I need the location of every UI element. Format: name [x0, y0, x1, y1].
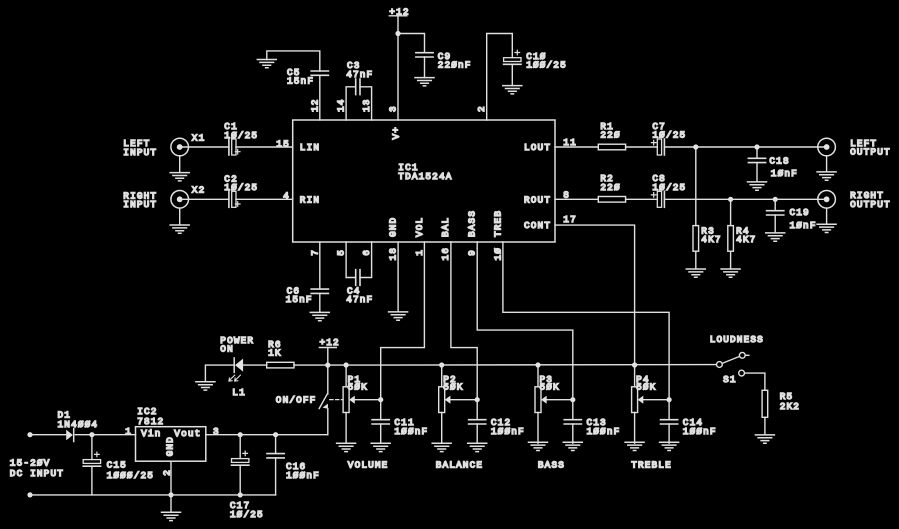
wire C16 to ground rail	[275, 458, 277, 495]
svg-text:ON/OFF: ON/OFF	[276, 395, 317, 406]
svg-text:VOL: VOL	[414, 217, 425, 237]
capacitor C5	[311, 71, 328, 75]
wire IC1 pin 18 to ground	[397, 242, 399, 312]
connector X2	[171, 191, 189, 209]
connector RIGHT OUTPUT	[818, 191, 836, 209]
wire +12 node to C9	[398, 34, 425, 53]
node junction P3 top	[535, 362, 540, 367]
node junction C7/R3	[693, 144, 698, 149]
ground R3	[686, 269, 705, 277]
svg-text:DC INPUT: DC INPUT	[10, 468, 64, 479]
wire C13 to ground	[572, 424, 574, 443]
svg-text:13: 13	[361, 98, 372, 112]
wire C12 to ground	[476, 424, 478, 443]
svg-text:RIN: RIN	[300, 194, 320, 205]
wire X1 to ground	[179, 156, 181, 173]
svg-text:4: 4	[283, 191, 290, 202]
wire IC1 pin 14 to C3	[346, 87, 356, 120]
svg-text:9: 9	[467, 249, 478, 256]
svg-text:12: 12	[309, 98, 320, 112]
svg-text:TREB: TREB	[492, 210, 503, 237]
wire C8 to right output	[664, 198, 826, 200]
svg-text:5ØK: 5ØK	[443, 382, 463, 393]
svg-text:14: 14	[336, 98, 347, 112]
wire IC1 pin 17 to control rail	[555, 225, 635, 365]
svg-text:1N4ØØ4: 1N4ØØ4	[58, 419, 99, 430]
svg-text:4K7: 4K7	[701, 234, 721, 245]
svg-text:OUTPUT: OUTPUT	[850, 199, 891, 210]
svg-text:1Ø/25: 1Ø/25	[224, 130, 258, 141]
wire ground to C5	[267, 51, 320, 71]
wire ground rail	[30, 494, 276, 496]
svg-text:ON: ON	[220, 344, 234, 355]
svg-text:15nF: 15nF	[286, 294, 313, 305]
wire R6 to +12 node	[294, 364, 328, 366]
wire C6 to ground	[319, 293, 321, 312]
svg-text:GND: GND	[388, 217, 399, 237]
node junction +12 rail / switch	[325, 363, 330, 368]
svg-text:1ØØnF: 1ØØnF	[394, 426, 428, 437]
svg-text:Vout: Vout	[174, 428, 201, 439]
wire R2 to C8	[626, 198, 658, 200]
connector LEFT OUTPUT	[818, 138, 836, 156]
ground C12	[468, 443, 487, 451]
wire L1 to R6	[243, 364, 267, 366]
power symbol +12 underline (switch)	[319, 347, 336, 349]
svg-text:X2: X2	[192, 185, 206, 196]
wire IC1 pin 7 to C6	[319, 242, 321, 289]
connector X1	[171, 138, 189, 156]
svg-text:LIN: LIN	[300, 142, 320, 153]
svg-text:1ØnF: 1ØnF	[790, 220, 817, 231]
svg-text:TDA1524A: TDA1524A	[398, 171, 452, 182]
svg-text:L1: L1	[232, 387, 246, 398]
ground R4	[721, 269, 740, 277]
svg-text:6: 6	[361, 249, 372, 256]
svg-text:VOLUME: VOLUME	[348, 459, 389, 470]
svg-text:1ØnF: 1ØnF	[771, 168, 798, 179]
ground P3	[529, 442, 548, 450]
svg-text:1ØØnF: 1ØØnF	[683, 426, 717, 437]
capacitor C3	[356, 79, 360, 95]
potentiometer P4	[632, 387, 670, 413]
svg-text:1Ø/25: 1Ø/25	[652, 129, 686, 140]
node junction C17 bottom	[238, 492, 243, 497]
wire ground to L1	[205, 365, 234, 382]
ground C5	[257, 60, 276, 68]
svg-text:S1: S1	[723, 374, 737, 385]
capacitor C19	[767, 211, 784, 215]
svg-text:BASS: BASS	[467, 210, 478, 237]
wire C18 to ground	[756, 163, 758, 182]
svg-text:7812: 7812	[137, 416, 164, 427]
wire node to C16	[275, 435, 277, 454]
wire P1 to ground	[345, 413, 347, 444]
wire R1 to C7	[626, 146, 658, 148]
ground X2	[170, 225, 189, 233]
capacitor C6	[311, 289, 328, 293]
capacitor C12	[469, 420, 486, 424]
wire P2 to ground	[441, 413, 443, 444]
ground P4	[625, 442, 644, 450]
svg-text:3: 3	[388, 105, 399, 112]
ground C10	[503, 86, 522, 94]
capacitor C4	[356, 270, 360, 286]
svg-text:5ØK: 5ØK	[540, 382, 560, 393]
wire C1 to IC1 pin 15	[236, 146, 293, 148]
svg-text:5ØK: 5ØK	[636, 382, 656, 393]
svg-text:1Ø/25: 1Ø/25	[224, 182, 258, 193]
wire R3 to ground	[695, 251, 697, 269]
wire node to C19	[774, 199, 776, 210]
svg-text:CONT: CONT	[524, 220, 551, 231]
ground C18	[748, 182, 767, 190]
svg-text:LOUDNESS: LOUDNESS	[710, 334, 764, 345]
node junction P2 wiper / C12	[475, 397, 480, 402]
capacitor C16	[267, 454, 284, 458]
wire P3 to ground	[537, 413, 539, 444]
power symbol +12 underline	[389, 15, 406, 17]
svg-text:1Ø/25: 1Ø/25	[652, 182, 686, 193]
wire node to R3	[695, 147, 697, 226]
wire C10 to ground	[511, 64, 513, 85]
ground P1	[337, 443, 356, 451]
wire rail to P2	[441, 365, 443, 387]
capacitor C1	[229, 139, 240, 155]
diode D1	[66, 429, 74, 442]
node junction C19	[773, 197, 778, 202]
svg-text:LOUT: LOUT	[524, 142, 551, 153]
wire left output to ground	[826, 156, 828, 172]
wire R4 to ground	[730, 251, 732, 269]
capacitor C7	[651, 139, 664, 155]
svg-text:1ØØØ/25: 1ØØØ/25	[107, 470, 154, 481]
svg-text:+12: +12	[320, 337, 340, 348]
svg-text:ROUT: ROUT	[524, 194, 551, 205]
wire ground rail stub	[170, 495, 172, 512]
capacitor C2	[229, 191, 240, 207]
wire rail node to switch	[327, 365, 329, 394]
ground IC2	[162, 512, 181, 520]
wire IC1 pin 5 to C4	[346, 242, 356, 278]
capacitor C13	[564, 420, 581, 424]
svg-text:BASS: BASS	[538, 459, 565, 470]
ground P2	[432, 443, 451, 451]
op-amp IC1 TDA1524A body	[293, 120, 555, 242]
resistor R3	[693, 226, 699, 252]
svg-text:1: 1	[125, 426, 132, 437]
wire C9 to ground	[424, 57, 426, 78]
potentiometer P3	[535, 387, 573, 413]
node junction C18	[754, 144, 759, 149]
node junction P2 top	[439, 362, 444, 367]
wire IC1 pin 16 to P2 wiper	[451, 242, 477, 400]
wire X2 to C2	[180, 198, 229, 200]
resistor R2	[598, 197, 625, 203]
svg-text:C18: C18	[769, 155, 789, 166]
svg-text:47nF: 47nF	[346, 294, 373, 305]
wire IC1 pin 2 to C10	[487, 34, 513, 121]
wire C3 to IC1 pin 13	[360, 87, 372, 120]
node junction P4 wiper / C14	[667, 397, 672, 402]
resistor R4	[728, 226, 734, 252]
wire input to D1	[30, 434, 66, 436]
wire C5 to IC1 pin 12	[319, 75, 321, 120]
node junction P4 top / pin17	[632, 362, 637, 367]
svg-text:V+: V+	[391, 126, 402, 140]
wire C2 to IC1 pin 4	[236, 198, 293, 200]
wire IC1 pin 10 to P4 wiper	[503, 242, 669, 400]
capacitor C10	[504, 50, 521, 64]
node junction P3 wiper / C13	[570, 397, 575, 402]
svg-text:5: 5	[336, 249, 347, 256]
svg-text:1K: 1K	[268, 348, 282, 359]
wire C7 to left output	[664, 146, 826, 148]
resistor R1	[598, 144, 625, 150]
svg-text:2: 2	[476, 105, 487, 112]
svg-text:15nF: 15nF	[287, 76, 314, 87]
svg-text:GND: GND	[165, 436, 176, 456]
wire C17 to ground rail	[239, 465, 241, 495]
ground left output	[817, 172, 836, 180]
svg-text:2K2: 2K2	[780, 401, 800, 412]
resistor R5	[762, 390, 768, 417]
wire IC2 GND pin to ground rail	[170, 461, 172, 495]
svg-text:47nF: 47nF	[346, 69, 373, 80]
wire switch to 12V rail	[327, 409, 329, 435]
svg-text:1: 1	[414, 249, 425, 256]
node junction C16	[273, 432, 278, 437]
wire C11 to ground	[380, 424, 382, 443]
wire node to C15	[91, 435, 93, 460]
ground C13	[563, 442, 582, 450]
capacitor C17	[232, 451, 249, 465]
svg-text:1ØØnF: 1ØØnF	[587, 426, 621, 437]
svg-text:7: 7	[309, 249, 320, 256]
capacitor C8	[651, 191, 664, 207]
ground C19	[766, 233, 785, 241]
svg-text:22Ø: 22Ø	[600, 129, 620, 140]
wire node to C17	[239, 435, 241, 459]
wire +12 to rail node	[327, 348, 329, 366]
wire C14 to ground	[668, 424, 670, 443]
node DC input + terminal	[27, 432, 32, 437]
wire IC1 pin 8 to R2	[555, 198, 598, 200]
svg-text:C15: C15	[107, 460, 127, 471]
node junction C17	[238, 432, 243, 437]
wire rail to P1	[345, 365, 347, 387]
svg-text:Vin: Vin	[141, 428, 161, 439]
svg-text:18: 18	[388, 247, 399, 261]
ground IC1 pin 18	[389, 312, 408, 320]
capacitor C15	[83, 452, 100, 466]
wire wiper node to C14	[668, 400, 670, 420]
wire rail to P3	[537, 365, 539, 387]
svg-text:C19: C19	[790, 207, 810, 218]
ground C11	[371, 443, 390, 451]
wire P4 to ground	[634, 413, 636, 444]
svg-text:TREBLE: TREBLE	[631, 459, 672, 470]
wire IC1 pin 1 to P1 wiper	[381, 242, 425, 400]
potentiometer P2	[439, 387, 477, 413]
node junction P1 wiper / C11	[378, 397, 383, 402]
node junction R4	[728, 197, 733, 202]
regulator IC2 7812 body	[136, 427, 206, 462]
svg-text:OUTPUT: OUTPUT	[850, 147, 891, 158]
ground R5	[755, 435, 774, 443]
svg-text:INPUT: INPUT	[123, 147, 157, 158]
wire wiper node to C11	[380, 400, 382, 420]
potentiometer P1	[343, 387, 381, 413]
svg-text:1ØØ/25: 1ØØ/25	[526, 60, 567, 71]
svg-text:1Ø/25: 1Ø/25	[230, 509, 264, 520]
wire control rail	[328, 364, 717, 367]
capacitor C11	[372, 420, 389, 424]
ground right output	[817, 224, 836, 232]
svg-text:1ØØnF: 1ØØnF	[491, 426, 525, 437]
ground L1	[196, 382, 215, 390]
ground C14	[660, 442, 679, 450]
wire C4 to IC1 pin 6	[360, 242, 372, 278]
ground C6	[310, 312, 329, 320]
node junction C15	[89, 432, 94, 437]
wire wiper node to C13	[572, 400, 574, 420]
node DC input - terminal	[27, 492, 32, 497]
svg-text:BAL: BAL	[440, 217, 451, 237]
wire R5 to ground	[764, 417, 766, 435]
svg-text:22Ø: 22Ø	[600, 182, 620, 193]
node junction P1 top	[344, 362, 349, 367]
svg-text:22ØnF: 22ØnF	[438, 60, 472, 71]
switch S1	[717, 352, 749, 376]
svg-text:5ØK: 5ØK	[348, 382, 368, 393]
wire right output to ground	[826, 208, 828, 224]
LED L1	[229, 358, 243, 381]
ground X1	[170, 173, 189, 181]
svg-text:15-2ØV: 15-2ØV	[10, 458, 51, 469]
capacitor C18	[748, 158, 765, 162]
wire S1 to R5	[745, 373, 765, 390]
capacitor C9	[416, 53, 433, 57]
wire wiper node to C12	[476, 400, 478, 420]
svg-text:INPUT: INPUT	[123, 199, 157, 210]
capacitor C14	[661, 420, 678, 424]
node junction +12 / C9	[395, 31, 400, 36]
svg-text:1ØØnF: 1ØØnF	[286, 470, 320, 481]
wire IC1 pin 11 to R1	[555, 146, 598, 148]
svg-text:16: 16	[440, 247, 451, 261]
wire +12 to IC1 pin 3	[397, 16, 399, 120]
wire IC2 Vout to switch	[206, 434, 328, 436]
wire C15 to ground rail	[91, 466, 93, 495]
svg-text:1Ø: 1Ø	[492, 247, 503, 261]
svg-text:17: 17	[563, 214, 577, 225]
wire node to R4	[730, 199, 732, 225]
svg-text:X1: X1	[192, 132, 206, 143]
node junction IC2 ground	[168, 492, 173, 497]
wire X2 to ground	[179, 208, 181, 225]
wire C19 to ground	[774, 215, 776, 233]
wire D1 to IC2 Vin	[75, 434, 135, 436]
ground C9	[415, 78, 434, 86]
wire X1 to C1	[180, 146, 229, 148]
svg-text:4K7: 4K7	[736, 234, 756, 245]
wire node to C18	[756, 147, 758, 158]
wire IC1 pin 9 to P3 wiper	[477, 242, 573, 400]
wire rail to P4	[634, 365, 636, 387]
switch ON/OFF blade	[319, 394, 343, 409]
svg-text:BALANCE: BALANCE	[436, 459, 483, 470]
resistor R6	[267, 362, 294, 368]
